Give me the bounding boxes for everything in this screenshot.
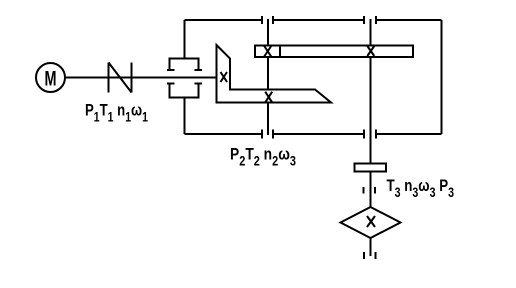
svg-text:P1T1 n1ω1: P1T1 n1ω1 — [85, 101, 148, 125]
housing left wall (upper segment) — [184, 20, 186, 59]
housing bottom wall break ticks — [262, 130, 376, 139]
housing top wall break ticks — [262, 16, 376, 24]
motor M1 — [36, 63, 65, 92]
shaft 3 (above gear block) — [370, 19, 372, 46]
X mark gear block at shaft 2 — [264, 46, 271, 57]
shaft 2 (vertical, above gear block) — [267, 19, 269, 46]
shaft 3 (lower segment) — [370, 238, 372, 256]
gear block (long rectangle on shafts 2 and 3) — [255, 46, 413, 58]
bearing upper bracket on shaft 1 — [167, 59, 202, 71]
housing bottom wall — [185, 133, 442, 135]
svg-text:T3 n3ω3 P3: T3 n3ω3 P3 — [387, 176, 455, 200]
svg-text:M: M — [45, 68, 57, 91]
output coupling rectangle on shaft 3 — [355, 164, 387, 172]
housing right wall — [441, 20, 443, 134]
shaft 2 (below cone arm) — [267, 103, 269, 136]
X mark in diamond — [367, 216, 375, 227]
bearing dashes on shaft 3 (lower pair) — [364, 252, 376, 259]
bearing lower bracket on shaft 1 — [167, 84, 202, 98]
X mark cone arm at shaft 2 — [265, 92, 272, 103]
X mark gear block at shaft 3 — [367, 46, 374, 56]
shaft 3 (middle segment) — [370, 172, 372, 208]
shaft 2 (between gear block and cone arm) — [267, 57, 269, 90]
coupling (shaft 1) — [109, 63, 132, 93]
shaft 3 (gear block to output coupling) — [370, 57, 372, 164]
gear block divider — [279, 46, 281, 58]
X mark on cone (shaft 1) — [221, 72, 228, 82]
housing left wall (lower segment) — [184, 98, 186, 135]
bearing dashes on shaft 3 (upper pair) — [364, 187, 376, 194]
shaft 1 (input shaft) — [65, 77, 217, 79]
bevel gear diamond on shaft 3 — [341, 207, 401, 238]
cone drive (flag shaped cone pair) — [217, 45, 332, 103]
housing top wall — [185, 19, 442, 21]
svg-text:P2T2 n2ω3: P2T2 n2ω3 — [230, 145, 296, 169]
